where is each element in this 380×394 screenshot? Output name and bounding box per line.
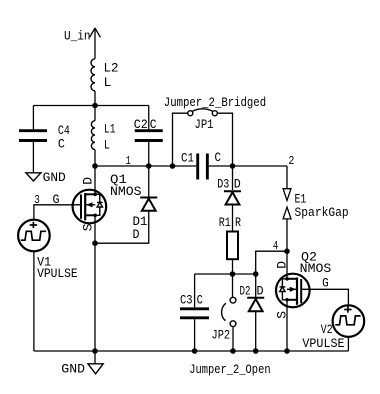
wire C2 top lead bbox=[148, 106, 150, 130]
wire C3 bottom lead bbox=[194, 319, 196, 351]
voltage source V2 VPULSE bbox=[302, 305, 364, 351]
capacitor C2 bbox=[134, 117, 163, 141]
transistor Q2 NMOS mirrored bbox=[276, 249, 331, 307]
wire D2 bottom lead bbox=[255, 311, 257, 351]
capacitor C4 bbox=[19, 123, 70, 152]
wire V2 bottom to rail bbox=[347, 337, 349, 351]
junction node1 at L1 bbox=[92, 163, 98, 169]
junction rail at C3 bbox=[192, 348, 198, 354]
svg-text:JP2: JP2 bbox=[212, 327, 231, 342]
wire node4 link bbox=[256, 251, 287, 274]
svg-text:Jumper_2_Open: Jumper_2_Open bbox=[189, 362, 270, 377]
svg-text:G: G bbox=[322, 276, 329, 291]
wire C4 to ground bbox=[32, 142, 34, 173]
wire D3 to R1 bbox=[232, 205, 234, 232]
wire Q1 gate to V1 bbox=[34, 205, 81, 220]
junction D2 top bbox=[253, 271, 259, 277]
wire Q1 source down to rail bbox=[94, 243, 96, 351]
inductor L2 bbox=[91, 59, 119, 91]
wire JP2 bottom lead bbox=[232, 327, 234, 351]
diode D2 bbox=[240, 283, 265, 311]
svg-text:GND: GND bbox=[43, 170, 66, 185]
svg-text:VPULSE: VPULSE bbox=[302, 336, 344, 351]
wire L2 bottom bbox=[94, 91, 96, 106]
wire C2 bottom lead bbox=[148, 142, 150, 166]
wire Q2 source bbox=[286, 300, 288, 351]
wire JP1 left branch bbox=[173, 113, 188, 166]
capacitor C3 bbox=[180, 293, 209, 318]
svg-text:1: 1 bbox=[126, 154, 131, 168]
svg-text:C2: C2 bbox=[134, 117, 148, 132]
svg-text:D: D bbox=[80, 177, 95, 185]
junction Q1 source node bbox=[92, 240, 98, 246]
wire C4 top lead bbox=[32, 106, 34, 130]
svg-text:D: D bbox=[257, 283, 264, 298]
junction R1/JP2 bbox=[230, 271, 236, 277]
svg-text:L2: L2 bbox=[104, 61, 119, 76]
svg-text:SparkGap: SparkGap bbox=[295, 205, 349, 220]
junction node1 at JP1 left bbox=[170, 163, 176, 169]
wire node2 down to spark gap bbox=[286, 166, 288, 189]
wire Q1 source bbox=[94, 215, 96, 243]
svg-text:C: C bbox=[58, 137, 65, 152]
svg-text:GND: GND bbox=[61, 361, 85, 376]
junction node1 at C2 bbox=[146, 163, 152, 169]
svg-text:L1: L1 bbox=[104, 121, 116, 136]
svg-text:D2: D2 bbox=[240, 284, 251, 299]
wire C3 top lead bbox=[194, 274, 196, 307]
svg-text:C: C bbox=[150, 117, 157, 132]
svg-text:V2: V2 bbox=[321, 322, 333, 337]
ground GND at C4 bbox=[26, 170, 66, 185]
svg-text:C1: C1 bbox=[181, 151, 194, 166]
svg-text:L: L bbox=[104, 137, 110, 152]
diode D1 bbox=[133, 198, 158, 243]
svg-text:R1: R1 bbox=[219, 215, 231, 230]
wire D2 top lead bbox=[255, 274, 257, 297]
wire V1 bottom to rail bbox=[33, 251, 35, 351]
ground GND bottom bbox=[61, 351, 103, 376]
svg-text:R: R bbox=[235, 215, 241, 230]
wire JP2 top lead bbox=[232, 274, 234, 297]
svg-text:D: D bbox=[133, 227, 140, 242]
wire node 1 horizontal right bbox=[209, 165, 287, 167]
spark gap E1 bbox=[283, 189, 349, 220]
svg-text:D: D bbox=[234, 176, 241, 191]
voltage source V1 VPULSE bbox=[18, 220, 78, 281]
wire Q2 drain bbox=[286, 251, 288, 279]
wire spark gap to node 4 bbox=[286, 219, 288, 251]
resistor R1 bbox=[219, 215, 241, 259]
wire D3 top lead bbox=[232, 166, 234, 190]
svg-text:Jumper_2_Bridged: Jumper_2_Bridged bbox=[164, 95, 266, 110]
svg-text:C: C bbox=[215, 150, 222, 165]
svg-text:JP1: JP1 bbox=[195, 117, 214, 132]
wire Q1 drain bbox=[94, 166, 96, 194]
wire D1 top lead bbox=[148, 166, 150, 197]
junction node1 at D3 bbox=[230, 163, 236, 169]
junction node 4 bbox=[284, 248, 290, 254]
jumper JP2 open bbox=[212, 297, 236, 342]
net arrow U_in bbox=[90, 28, 101, 59]
wire bottom rail bbox=[34, 350, 349, 352]
svg-text:NMOS: NMOS bbox=[300, 261, 332, 276]
svg-text:U_in: U_in bbox=[64, 29, 91, 44]
junction rail at Q2 source bbox=[284, 348, 290, 354]
svg-text:2: 2 bbox=[288, 154, 294, 168]
junction rail at JP2 bbox=[230, 348, 236, 354]
svg-text:C3: C3 bbox=[180, 293, 193, 308]
wire D1 bottom to Q1 source bbox=[95, 211, 149, 243]
svg-text:C: C bbox=[197, 293, 203, 308]
wire R1 bottom lead bbox=[232, 259, 234, 274]
diode D3 bbox=[217, 176, 241, 204]
inductor L1 bbox=[91, 106, 115, 167]
svg-text:S: S bbox=[80, 223, 95, 231]
svg-text:NMOS: NMOS bbox=[110, 184, 142, 199]
svg-text:D3: D3 bbox=[217, 177, 229, 192]
wire JP1 right branch bbox=[217, 113, 232, 166]
junction rail at D2 bbox=[253, 348, 259, 354]
jumper JP1 bridged bbox=[188, 109, 218, 132]
wire top horizontal bbox=[33, 105, 148, 107]
svg-text:VPULSE: VPULSE bbox=[37, 266, 78, 281]
wire middle horizontal bbox=[195, 273, 256, 275]
wire node 1 horizontal left bbox=[95, 165, 196, 167]
capacitor C1 bbox=[181, 150, 221, 180]
svg-text:L: L bbox=[104, 75, 112, 90]
transistor Q1 NMOS bbox=[73, 172, 142, 223]
svg-text:4: 4 bbox=[273, 239, 278, 253]
junction rail at Q1 source bbox=[92, 348, 98, 354]
junction top node bbox=[92, 103, 98, 109]
wire Q2 gate to V2 bbox=[301, 289, 348, 305]
